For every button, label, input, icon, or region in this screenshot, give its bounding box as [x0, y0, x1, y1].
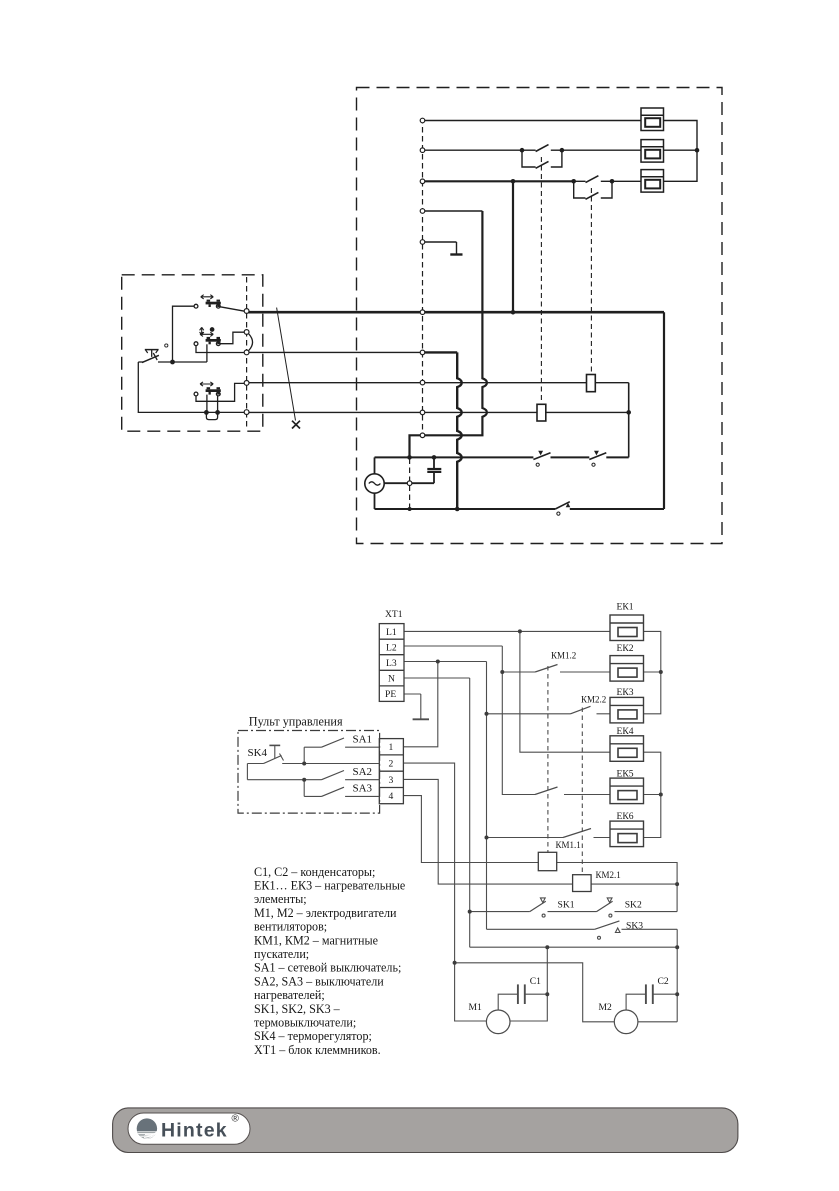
- svg-text:КМ2.1: КМ2.1: [596, 870, 621, 880]
- svg-text:L1: L1: [386, 627, 397, 638]
- svg-text:ЕК3: ЕК3: [617, 687, 634, 698]
- svg-text:L3: L3: [386, 658, 397, 669]
- svg-text:нагревателей;: нагревателей;: [254, 988, 325, 1002]
- svg-text:ЕК4: ЕК4: [617, 726, 634, 737]
- svg-text:КМ1, КМ2 – магнитные: КМ1, КМ2 – магнитные: [254, 933, 378, 947]
- svg-text:2: 2: [389, 759, 394, 770]
- svg-text:C2: C2: [658, 976, 669, 987]
- svg-text:SA2, SA3 – выключатели: SA2, SA3 – выключатели: [254, 974, 384, 988]
- svg-text:L2: L2: [386, 642, 397, 653]
- svg-text:ЕК6: ЕК6: [617, 811, 634, 822]
- svg-text:N: N: [388, 674, 395, 685]
- svg-text:SK2: SK2: [625, 900, 642, 911]
- svg-text:XT1: XT1: [385, 609, 403, 620]
- svg-text:SK4: SK4: [248, 747, 268, 759]
- svg-text:С1, С2 – конденсаторы;: С1, С2 – конденсаторы;: [254, 865, 375, 879]
- svg-text:ХТ1 – блок клеммников.: ХТ1 – блок клеммников.: [254, 1043, 381, 1057]
- svg-text:PE: PE: [385, 689, 396, 700]
- svg-text:SK4 – терморегулятор;: SK4 – терморегулятор;: [254, 1029, 372, 1043]
- svg-text:М2: М2: [599, 1002, 613, 1013]
- svg-text:ЕК5: ЕК5: [617, 769, 634, 780]
- svg-text:SK3: SK3: [626, 920, 643, 931]
- svg-text:SK1, SK2, SK3 –: SK1, SK2, SK3 –: [254, 1002, 341, 1016]
- svg-text:SA3: SA3: [353, 783, 373, 795]
- svg-text:SA1 – сетевой выключатель;: SA1 – сетевой выключатель;: [254, 961, 401, 975]
- svg-text:3: 3: [389, 775, 394, 786]
- svg-text:ЕК2: ЕК2: [617, 643, 634, 654]
- svg-text:элементы;: элементы;: [254, 892, 307, 906]
- svg-text:термовыключатели;: термовыключатели;: [254, 1016, 356, 1030]
- svg-text:пускатели;: пускатели;: [254, 947, 309, 961]
- svg-text:М1, М2 – электродвигатели: М1, М2 – электродвигатели: [254, 906, 397, 920]
- svg-text:Пульт управления: Пульт управления: [249, 715, 343, 729]
- svg-text:М1: М1: [469, 1002, 483, 1013]
- svg-text:®: ®: [232, 1114, 240, 1125]
- svg-text:КМ2.2: КМ2.2: [581, 694, 606, 704]
- svg-text:вентиляторов;: вентиляторов;: [254, 920, 327, 934]
- svg-text:4: 4: [389, 791, 394, 802]
- svg-text:SA2: SA2: [353, 766, 373, 778]
- svg-text:SA1: SA1: [353, 734, 373, 746]
- svg-text:ЕК1: ЕК1: [617, 602, 634, 613]
- svg-text:КМ1.1: КМ1.1: [556, 840, 581, 850]
- svg-text:SK1: SK1: [558, 900, 575, 911]
- svg-text:ЕК1… ЕК3 – нагревательные: ЕК1… ЕК3 – нагревательные: [254, 879, 405, 893]
- svg-text:КМ1.2: КМ1.2: [551, 651, 576, 661]
- svg-text:Hintek: Hintek: [161, 1120, 228, 1142]
- svg-text:C1: C1: [530, 976, 541, 987]
- svg-text:1: 1: [389, 742, 394, 753]
